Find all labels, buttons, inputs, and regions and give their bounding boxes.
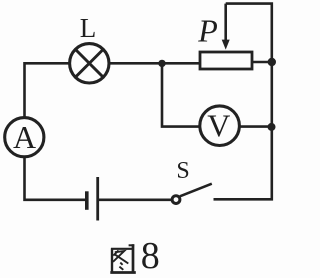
switch S: [172, 184, 212, 204]
node junction dot right-top: [268, 58, 276, 66]
voltmeter V: [200, 106, 240, 146]
svg-text:S: S: [176, 158, 189, 184]
ammeter A: [5, 118, 44, 157]
battery cell: [87, 177, 98, 221]
svg-text:A: A: [13, 119, 36, 155]
wire: [25, 63, 71, 118]
wire: [109, 62, 200, 65]
node junction dot right-mid: [268, 123, 276, 131]
svg-text:8: 8: [141, 235, 160, 277]
wire: [239, 125, 272, 128]
wire: [99, 199, 172, 202]
svg-text:V: V: [207, 107, 230, 143]
caption glyph tu (figure): [110, 244, 136, 272]
rheostat P: [200, 52, 252, 69]
wire: [25, 157, 86, 200]
wiper arrow: [222, 4, 230, 50]
wire: [162, 64, 201, 127]
svg-text:L: L: [80, 13, 97, 43]
svg-text:P: P: [197, 13, 218, 49]
node junction dot left: [158, 60, 165, 67]
lamp L: [70, 44, 109, 83]
wire: [252, 61, 272, 64]
wire: [214, 4, 272, 200]
